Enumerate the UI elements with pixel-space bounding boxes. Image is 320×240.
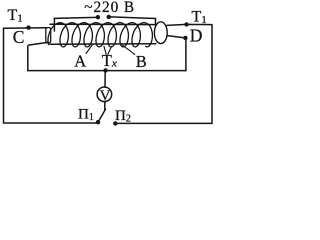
terminal dot supply right [107, 15, 111, 19]
wire D lead [167, 36, 185, 38]
leader lines Tx [104, 46, 106, 54]
contact dot P2 [113, 121, 117, 125]
svg-text:A: A [74, 51, 86, 70]
wire supply left segment with drop to coil [54, 17, 95, 31]
winding loops [48, 23, 152, 47]
junction dot voltmeter tap [103, 68, 107, 72]
voltmeter circle V [97, 87, 112, 102]
junction dot D [183, 36, 187, 40]
wire inner right vertical [185, 39, 187, 71]
terminal dot supply left [96, 15, 100, 19]
wire bottom right and right border [115, 25, 212, 124]
wire inner bottom horizontal [28, 70, 186, 72]
wire voltmeter stem bottom [104, 101, 106, 110]
svg-text:C: C [13, 27, 25, 47]
coil top edge [50, 23, 157, 25]
wire left border down to switch [4, 28, 97, 123]
wire inner left vertical to coil C end [28, 42, 49, 70]
wire supply right segment with drop to coil [111, 17, 156, 25]
junction dot T1 left [26, 25, 30, 29]
leader line A [86, 45, 92, 54]
svg-text:B: B [136, 52, 147, 71]
pivot dot switch P1 [96, 120, 100, 124]
svg-text:~220 В: ~220 В [84, 0, 135, 16]
coil bottom edge [50, 43, 156, 45]
svg-text:D: D [190, 26, 203, 46]
wire voltmeter stem top [104, 70, 106, 87]
coil right end ellipse [154, 22, 167, 44]
wire right T1 lead [167, 24, 212, 25]
junction dot T1 right [184, 22, 188, 26]
wire left T1 lead [4, 27, 47, 30]
coil left end cap [46, 28, 51, 43]
switch blade open [98, 109, 106, 122]
leader line B [122, 45, 134, 54]
svg-text:V: V [100, 88, 111, 104]
